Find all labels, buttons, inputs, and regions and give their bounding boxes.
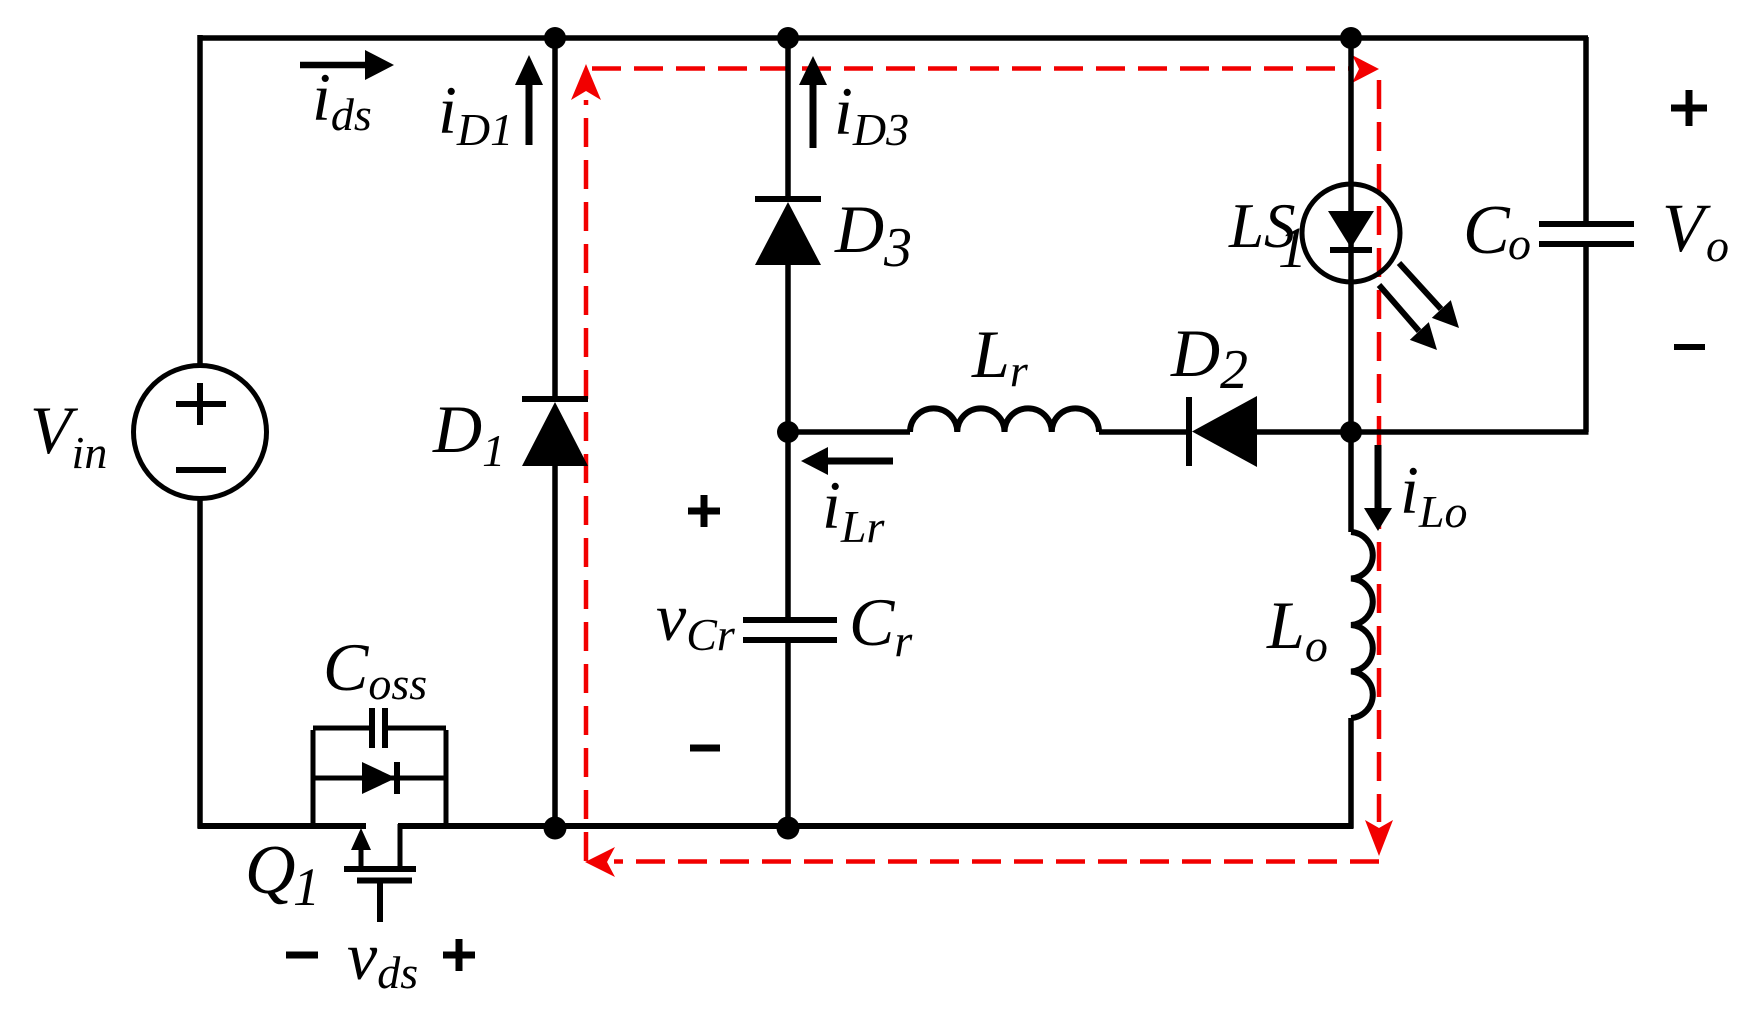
node bottom Cr (777, 817, 800, 840)
label minus of Cr (690, 745, 720, 752)
label plus of Cr (688, 495, 720, 527)
wire bottom bus right of Q1 (398, 823, 1354, 829)
capacitor Co (1539, 224, 1634, 244)
svg-text:Lo: Lo (1266, 587, 1328, 671)
label LS_1 (1228, 191, 1307, 280)
label D_3 (834, 191, 912, 279)
LED LS1 (1302, 184, 1459, 350)
wire right column below Co (1583, 247, 1589, 432)
node D2 LED Lo (1340, 421, 1362, 443)
wire left column upper (197, 35, 203, 366)
transistor Q1 MOSFET symbol (344, 824, 416, 922)
inductor Lr (910, 408, 1099, 432)
svg-text:vds: vds (347, 918, 418, 998)
label D_2 (1170, 315, 1248, 401)
red arrow down (loop bottom-right) (1365, 820, 1393, 856)
svg-text:1: 1 (293, 857, 320, 917)
wire D1 branch lower (552, 464, 558, 826)
svg-text:Lr: Lr (971, 316, 1029, 396)
red dashed loop top edge (592, 66, 1352, 71)
wire D1 branch upper (552, 37, 558, 397)
body diode of Q1 (313, 762, 446, 794)
svg-text:iD3: iD3 (834, 73, 909, 155)
svg-text:vCr: vCr (656, 579, 736, 660)
red dashed loop right edge (1377, 80, 1382, 822)
red dashed loop bottom edge (614, 859, 1379, 864)
node Cr top (777, 421, 799, 443)
wire top bus (198, 35, 1589, 41)
wire D3 branch upper (785, 37, 791, 197)
label Q_1 (245, 832, 320, 917)
svg-text:V: V (1662, 190, 1711, 266)
svg-text:Cr: Cr (849, 584, 913, 666)
label V_o (1662, 190, 1729, 271)
svg-text:Q: Q (245, 832, 296, 909)
arrow i_ds (300, 50, 394, 80)
arrow i_Lr (801, 447, 893, 475)
svg-text:o: o (1706, 220, 1729, 271)
label C_o (1463, 192, 1531, 269)
diode D3 (755, 199, 821, 265)
svg-text:iLr: iLr (822, 467, 885, 552)
wire Lo branch upper (1348, 432, 1354, 532)
node top D3 (777, 27, 799, 49)
svg-text:D: D (834, 191, 884, 267)
inductor Lo (1351, 532, 1373, 718)
node top D1 (544, 27, 566, 49)
label minus of Vo (1674, 344, 1705, 350)
label plus of vds (443, 939, 475, 971)
svg-text:Vin: Vin (30, 392, 107, 478)
wire right column above Co (1583, 37, 1589, 221)
wire output bottom horizontal (1351, 429, 1589, 435)
label plus of Vo (1671, 90, 1707, 126)
red arrow left (loop bottom-left) (585, 847, 615, 877)
red arrow right (loop top-right) (1352, 55, 1379, 83)
red arrow up (loop top-left) (571, 64, 601, 100)
svg-text:D1: D1 (432, 391, 505, 476)
wire bottom bus left of Q1 (198, 823, 367, 829)
svg-text:o: o (1508, 218, 1531, 269)
capacitor Cr (743, 620, 837, 640)
wire Cr branch lower (785, 643, 791, 826)
svg-text:D: D (1170, 315, 1220, 391)
svg-text:Coss: Coss (323, 629, 427, 709)
transistor Q1 snubber box (313, 728, 446, 826)
wire node Cr to Lr (788, 429, 910, 435)
node top LED (1340, 27, 1362, 49)
label minus of vds (286, 952, 318, 959)
arrow i_D3 (799, 56, 827, 148)
svg-text:3: 3 (883, 217, 912, 279)
wire D2 to node (1256, 429, 1353, 435)
source V_in (134, 366, 267, 499)
wire Lo branch lower (1348, 718, 1354, 828)
capacitor Coss (372, 708, 385, 748)
svg-text:iLo: iLo (1400, 452, 1468, 537)
svg-text:C: C (1463, 192, 1511, 269)
wire left column lower (197, 499, 203, 828)
wire LED branch (1348, 37, 1354, 432)
svg-text:ids: ids (312, 59, 372, 140)
red dashed loop left edge (584, 100, 589, 861)
arrow i_D1 (515, 55, 543, 145)
diode D1 (522, 399, 588, 466)
diode D2 (1189, 396, 1257, 467)
wire D3 branch middle (785, 263, 791, 617)
arrow i_Lo (1364, 445, 1392, 531)
node bottom D1 (544, 817, 567, 840)
svg-text:iD1: iD1 (438, 72, 513, 155)
svg-text:2: 2 (1220, 339, 1248, 401)
wire Lr to D2 (1099, 429, 1187, 435)
svg-text:1: 1 (1278, 215, 1307, 280)
